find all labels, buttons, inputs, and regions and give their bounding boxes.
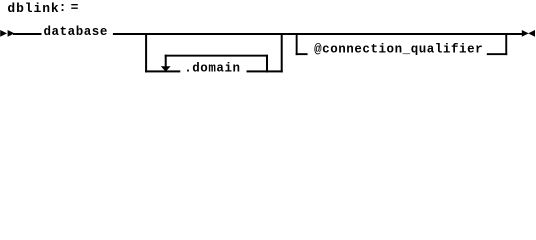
svg-text:@connection_qualifier: @connection_qualifier (314, 43, 483, 57)
svg-text:database: database (44, 25, 108, 39)
svg-text::: : (59, 0, 67, 15)
svg-text:=: = (71, 0, 79, 15)
svg-text:.domain: .domain (184, 62, 240, 76)
svg-text:dblink: dblink (7, 1, 59, 16)
